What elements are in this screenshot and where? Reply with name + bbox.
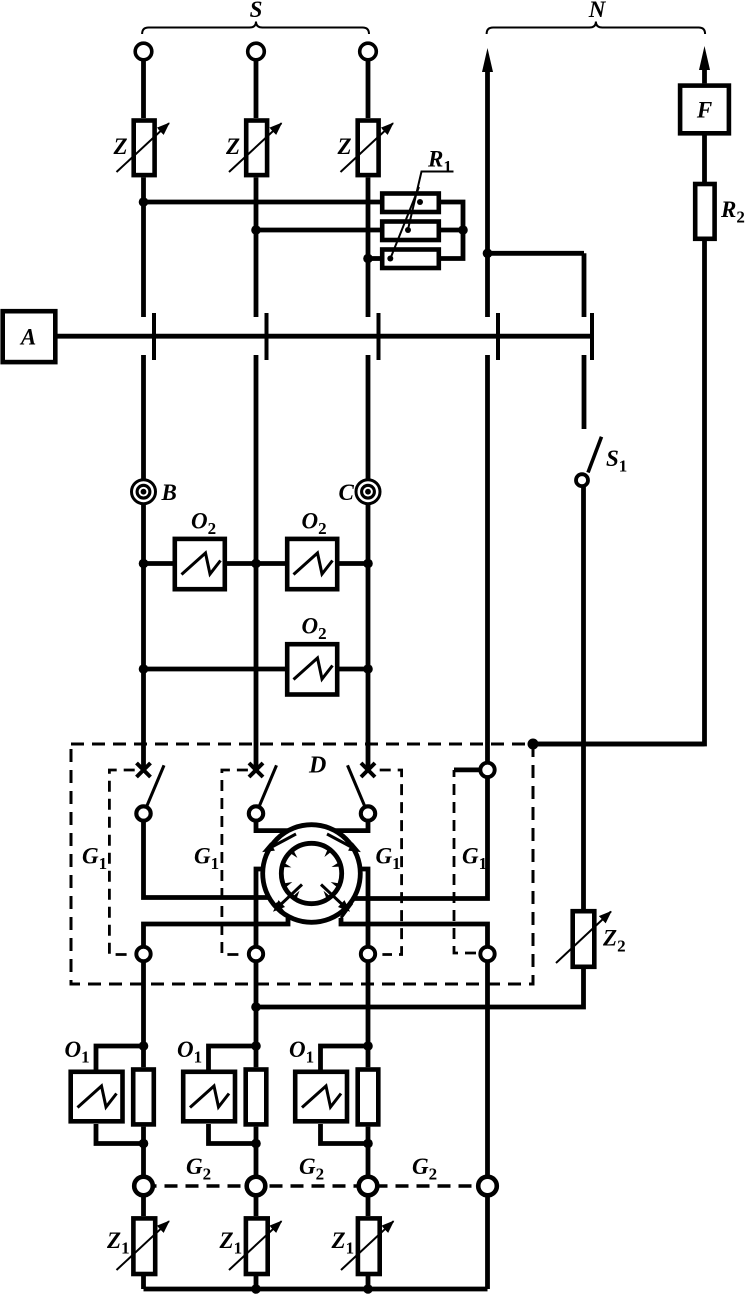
- apparatus F box: [680, 86, 729, 134]
- arrow N phase 4: [482, 48, 493, 317]
- regulator inner winding arrow 24deg: [331, 882, 341, 888]
- G1 box 1 dashed: [109, 770, 134, 955]
- wire phase3 O1 to G2: [366, 1127, 371, 1177]
- D box dashed boundary: [71, 744, 533, 984]
- G1 box 3 dashed: [380, 770, 402, 955]
- link bar crossing 1: [152, 313, 156, 360]
- switch 2 hinge circle: [249, 806, 263, 820]
- junction dot O2 row2 phase3: [363, 664, 373, 674]
- link bar crossing 5: [590, 313, 594, 360]
- impedance Z phase1: [117, 121, 170, 176]
- R1 wiper contact dots: [387, 199, 423, 262]
- wire phase1 terminal to Z: [141, 60, 146, 118]
- switch 3 hinge circle: [361, 806, 375, 820]
- wire G1 block4 top stub: [454, 768, 480, 773]
- resistor bank R1 top: [382, 194, 439, 213]
- impedance Z phase3: [341, 121, 394, 176]
- wire phase2 Z1 to bottom: [254, 1276, 259, 1289]
- wire phase3 Z1 to bottom: [366, 1276, 371, 1289]
- terminal circle G2 phase2: [247, 1177, 266, 1196]
- link bar crossing 2: [265, 313, 269, 360]
- wire phase4 bus to D box: [485, 355, 490, 763]
- induction regulator D outer circle: [263, 825, 361, 923]
- terminal circle G1 block4 top: [480, 763, 494, 777]
- wire brush SW connector: [276, 903, 288, 918]
- regulator inner winding arrow 342deg: [332, 862, 342, 867]
- wire phase2 bus to O2 row: [254, 355, 259, 770]
- junction dot bottom phase2: [251, 1284, 261, 1294]
- G1 box 4 dashed: [454, 770, 476, 953]
- svg-text:A: A: [19, 325, 36, 350]
- terminal circle G2 phase3: [359, 1177, 378, 1196]
- resistor O1 block2 shunt: [246, 1070, 267, 1125]
- wire phase2 O1 to G2: [254, 1127, 259, 1177]
- wire phase1 Z to bus gap: [141, 178, 146, 318]
- wire switch2 to regulator upper left: [256, 821, 288, 831]
- recorder O1 block1 box: [71, 1041, 154, 1148]
- junction dot O1 block1 top: [139, 1041, 149, 1051]
- wire O1 block3 bottom link: [321, 1124, 369, 1144]
- svg-text:N: N: [588, 0, 607, 22]
- junction dot O1 block3 bottom: [363, 1139, 373, 1149]
- G1 box 2 dashed: [222, 770, 248, 955]
- regulator inner winding arrow 228deg: [289, 849, 297, 858]
- svg-text:F: F: [696, 98, 712, 123]
- junction dot phase4 branch: [483, 249, 493, 259]
- wire R1 middle right stub: [441, 228, 463, 233]
- wire phase1 bus to B: [141, 355, 146, 480]
- recorder O1 block2 box: [183, 1041, 266, 1148]
- wire O2 row1 segment a: [144, 561, 174, 566]
- terminal circle G1 block1 bottom: [136, 947, 150, 961]
- svg-text:Z: Z: [225, 134, 240, 159]
- wire phase2 to R1 middle: [256, 228, 380, 233]
- induction regulator inner circle: [281, 843, 341, 903]
- wire phase2 terminal to Z: [254, 60, 259, 118]
- junction dot Z2 return phase2: [251, 1002, 261, 1012]
- svg-text:B: B: [161, 480, 177, 505]
- resistor bank R1 bottom: [382, 250, 439, 269]
- bus bar from A: [57, 334, 593, 339]
- switch 3 fixed contact X: [361, 763, 375, 777]
- link bar crossing 4: [496, 313, 500, 360]
- wire S1 line upper: [582, 253, 587, 317]
- switch S1 blade: [588, 437, 602, 473]
- terminal phase 2: [248, 43, 265, 60]
- wire phase3 Z to bus gap: [366, 178, 371, 318]
- resistor bank R1 middle: [382, 222, 439, 241]
- wire brush SE connector: [341, 903, 352, 918]
- junction dot O1 block2 top: [251, 1041, 261, 1051]
- junction dot O2 row2 phase1: [139, 664, 149, 674]
- regulator inner winding arrow 55deg: [324, 891, 332, 900]
- svg-text:Z: Z: [112, 134, 127, 159]
- junction dot phase1 R1: [139, 197, 149, 207]
- recorder O2 box 2: [287, 539, 337, 589]
- recorder O1 block3 box: [295, 1041, 378, 1148]
- node N bracket: [487, 22, 705, 35]
- switch 1 hinge circle: [136, 806, 150, 820]
- wire phase3 to R1 bottom: [368, 256, 380, 261]
- wire R2 down to corner: [533, 241, 705, 744]
- regulator brush SW: [273, 885, 302, 912]
- impedance Z1 phase3: [341, 1218, 394, 1274]
- impedance Z1 phase2: [229, 1218, 282, 1274]
- junction dot D box corner: [528, 739, 539, 750]
- wire regulator bottom left stub: [256, 869, 264, 947]
- terminal phase 1: [135, 43, 152, 60]
- regulator inner winding arrow 156deg: [283, 882, 293, 888]
- apparatus A box: [3, 311, 56, 362]
- recorder O2 box 3: [287, 644, 337, 694]
- recorder O2 box 1: [175, 539, 225, 589]
- impedance Z phase2: [229, 121, 282, 176]
- wire O1 block2 bottom link: [209, 1124, 257, 1144]
- junction dot O2 row1 phase3: [363, 559, 373, 569]
- wire O2 row1 segment b: [227, 561, 285, 566]
- switch 1 fixed contact X: [137, 763, 151, 777]
- regulator inner winding arrow 197deg: [282, 862, 292, 867]
- svg-text:D: D: [308, 753, 326, 779]
- wire branch to S1 line: [488, 251, 585, 256]
- terminal phase 3: [360, 43, 377, 60]
- wire phase1 to R1 top: [144, 200, 381, 205]
- wire phase2 G2 to Z1: [254, 1195, 259, 1216]
- wire phase3 below D box: [366, 961, 371, 1067]
- svg-text:S: S: [250, 0, 263, 22]
- resistor R2: [695, 184, 714, 239]
- terminal circle G2 phase1: [134, 1177, 153, 1196]
- regulator inner winding arrow 125deg: [292, 891, 300, 900]
- wire O2 row2 left: [144, 667, 286, 672]
- junction dot O1 block2 bottom: [251, 1139, 261, 1149]
- wire phase1 Z1 to bottom: [141, 1276, 146, 1289]
- svg-text:Z: Z: [336, 134, 351, 159]
- wire bottom tie: [144, 1287, 488, 1292]
- wire block4 circle riser: [341, 918, 488, 947]
- wire F to R2: [702, 135, 707, 182]
- terminal circle G1 block2 bottom: [249, 947, 263, 961]
- wire phase3 terminal to Z: [366, 60, 371, 118]
- terminal circle G1 block3 bottom: [361, 947, 375, 961]
- wire R1 right bus: [441, 202, 463, 259]
- switch S1 hinge circle: [576, 474, 588, 486]
- wire switch1 to regulator left: [144, 821, 271, 898]
- R1 wiper gang line: [390, 172, 453, 259]
- wire phase4 G2 to bottom: [485, 1195, 490, 1289]
- wire block1 circle riser: [144, 918, 289, 947]
- node S bracket: [142, 22, 369, 35]
- switch 2 blade: [259, 765, 277, 807]
- wire Z2 to phase2 return: [256, 969, 584, 1007]
- wire phase2 below D box: [254, 961, 259, 1067]
- wire O2 row2 right: [339, 667, 368, 672]
- terminal B: [132, 480, 156, 504]
- wire phase1 below D box: [141, 961, 146, 1067]
- wire switch3 to regulator upper right: [335, 821, 368, 831]
- wire phase2 Z to bus gap: [254, 178, 259, 318]
- terminal circle G1 block4 bottom: [480, 947, 494, 961]
- junction dot R1 right bus: [458, 225, 468, 235]
- regulator brush NE: [327, 834, 361, 852]
- arrow N right line: [699, 46, 710, 83]
- junction dot phase2 R1: [251, 225, 261, 235]
- switch 2 fixed contact X: [249, 763, 263, 777]
- wire phase3 bus to C: [366, 355, 371, 480]
- regulator inner winding arrow 308deg: [324, 848, 332, 857]
- wire regulator bottom right stub: [360, 869, 369, 947]
- junction dot O1 block1 bottom: [139, 1139, 149, 1149]
- wire D corner to right line: [533, 742, 705, 747]
- wire S1 line below bus: [582, 355, 587, 429]
- junction dot phase3 R1: [363, 254, 373, 264]
- junction dot bottom phase3: [363, 1284, 373, 1294]
- regulator brush NW: [262, 834, 296, 852]
- wire O1 block2 top link: [209, 1046, 257, 1070]
- wire S1 to Z2: [581, 486, 586, 909]
- junction dot O2 row1 phase1: [139, 559, 149, 569]
- wire phase1 O1 to G2: [141, 1127, 146, 1177]
- regulator brush SE: [321, 885, 350, 912]
- link bar crossing 3: [377, 313, 381, 360]
- junction dot O1 block3 top: [363, 1041, 373, 1051]
- impedance Z2: [556, 911, 611, 967]
- terminal C: [356, 480, 380, 504]
- junction dot O2 row1 phase2: [251, 559, 261, 569]
- wire phase4 below D box: [485, 961, 490, 1177]
- wire phase3 G2 to Z1: [366, 1195, 371, 1216]
- wire O1 block3 top link: [321, 1046, 369, 1070]
- impedance Z1 phase1: [117, 1218, 170, 1274]
- svg-text:C: C: [339, 480, 355, 505]
- wire phase1 B to D box: [141, 504, 146, 770]
- switch 1 blade: [146, 765, 164, 807]
- resistor O1 block1 shunt: [133, 1070, 154, 1125]
- resistor O1 block3 shunt: [358, 1070, 379, 1125]
- wire O2 row1 segment c: [339, 561, 368, 566]
- switch 3 blade: [348, 765, 366, 807]
- wire regulator right to block4: [353, 777, 488, 898]
- G2 dashed earth line: [144, 1184, 488, 1188]
- wire O1 block1 top link: [96, 1046, 144, 1070]
- wire phase3 C to D box: [366, 504, 371, 770]
- terminal circle G2 phase4: [478, 1177, 497, 1196]
- wire O1 block1 bottom link: [96, 1124, 144, 1144]
- wire phase1 G2 to Z1: [141, 1195, 146, 1216]
